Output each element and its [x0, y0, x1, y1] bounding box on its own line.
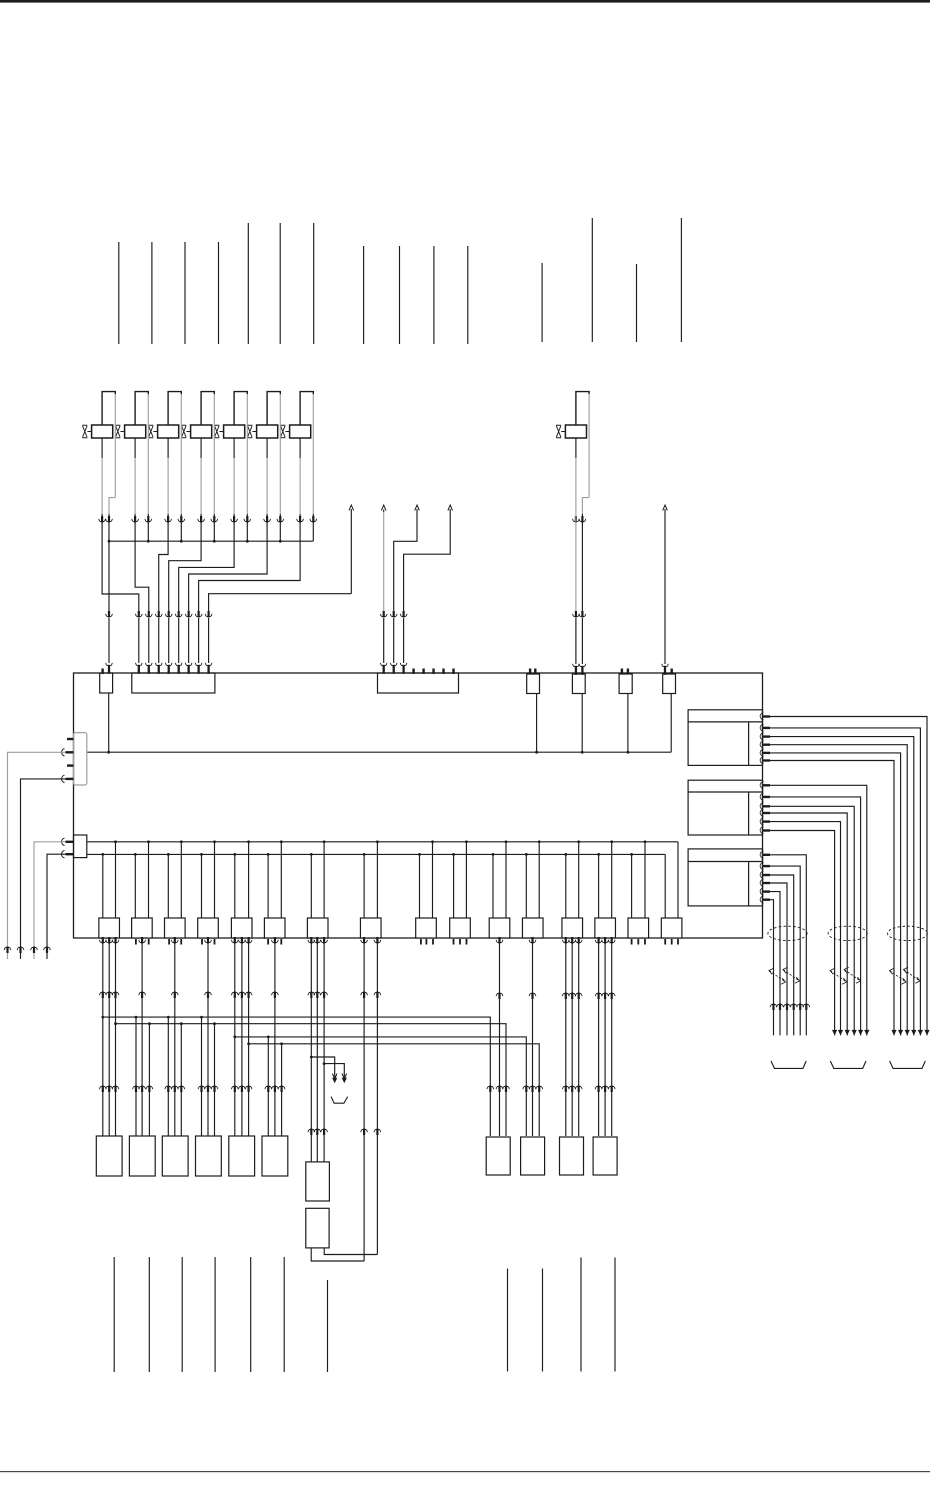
output connector K14 — [595, 918, 616, 938]
connector CN-H (ECU left, 4-pin) — [74, 733, 87, 785]
wire M2 pin 2 output — [760, 793, 863, 1035]
connector CN-C (ECU top, 8-pin) — [378, 673, 459, 693]
connector mark on link B — [503, 1086, 510, 1093]
pin stub CN-F pin 2 — [627, 669, 629, 675]
wire M3 pin 1 output — [760, 851, 810, 1035]
wire link C drop to fuse F6 — [265, 1036, 272, 1137]
wire K7-1 to relay R1 — [308, 937, 315, 1162]
wire K14-2 to fuse F10 — [602, 937, 609, 1136]
connector CN-E (ECU top, 2-pin) — [572, 674, 585, 694]
wire bus upper to output connector 13 — [577, 840, 580, 918]
fuse F1 — [96, 1136, 122, 1176]
output connector K16 — [661, 918, 682, 938]
wire CN-A to rail — [107, 693, 110, 754]
wire M3 pin 6 output — [760, 896, 777, 1035]
ECU internal supply rail — [87, 751, 671, 753]
output connector K13 — [562, 918, 583, 938]
wire bus upper to output connector 11 — [505, 840, 508, 918]
connector mark on link C — [523, 1086, 530, 1093]
relay R1 — [306, 1162, 330, 1201]
wire bus upper to output connector 16 — [677, 842, 679, 918]
junction — [246, 540, 249, 543]
connector mark on link D — [536, 1086, 543, 1093]
fuse F6 — [262, 1136, 288, 1176]
wire CN-E to rail — [581, 694, 584, 754]
shield mark — [904, 967, 921, 983]
wire link A drop to fuse F3 — [165, 1016, 172, 1136]
wire K5-3 to fuse F5 — [245, 937, 252, 1136]
wire link B drop to fuse F4 — [211, 1022, 218, 1136]
output connector K11 — [489, 918, 510, 938]
driver module M1 — [688, 710, 762, 766]
wire M3 pin 4 output — [760, 879, 790, 1035]
wire valve V8 return to CN-E pin 2 — [579, 394, 589, 675]
receptacle symbol for spare leads — [331, 1097, 348, 1104]
wire bus upper to output connector 8 — [376, 840, 379, 918]
wire top stub 9 — [399, 246, 401, 344]
wire top stub 7 — [313, 223, 315, 344]
pin stub K15-2 — [637, 939, 639, 945]
resistor R2 — [306, 1208, 329, 1248]
wire CN-G to rail — [670, 694, 672, 753]
wire CN-H pin2 to battery W1 — [4, 752, 65, 959]
wire K8-1 loop to R2 pin 1 — [311, 937, 367, 1261]
wire M3 pin 3 output — [760, 871, 797, 1035]
solenoid valve V6 — [247, 392, 280, 438]
wire bus upper to output connector 15 — [644, 840, 647, 918]
wire K3 middle to fuse F3 — [171, 937, 178, 1136]
wire K13-2 to fuse F9 — [569, 937, 576, 1136]
wire return bus to CN-A pin 2 — [106, 540, 113, 674]
wire harness W5 to CN-C pin 1 — [380, 505, 387, 674]
wire bottom stub 5 — [250, 1257, 252, 1372]
pin stub CN-C pin 7 — [442, 669, 444, 675]
wire bus lower to output connector 2 — [134, 853, 137, 918]
driver module M3 — [688, 849, 762, 906]
pin stub K9-3 — [432, 939, 434, 945]
pin stub K6 left — [267, 939, 269, 945]
shield mark — [783, 967, 800, 983]
solenoid valve V8 — [556, 392, 589, 438]
solenoid valve V7 — [280, 392, 313, 438]
wire top stub 5 — [247, 223, 249, 344]
wire M1 pin 4 output — [760, 741, 910, 1035]
junction — [279, 540, 282, 543]
wire link A drop to fuse F2 — [133, 1016, 140, 1136]
wire bus lower to output connector 3 — [167, 853, 170, 918]
wire K4 middle to fuse F4 — [205, 937, 212, 1136]
wire M1 pin 1 output — [760, 713, 930, 1036]
wire M1 pin 5 output — [760, 749, 903, 1035]
wire M2 pin 1 output — [760, 782, 869, 1036]
wire M2 pin 4 output — [760, 809, 850, 1035]
wire K14-3 to fuse F10 — [608, 937, 615, 1136]
wire bus upper to output connector 3 — [180, 840, 183, 918]
wire bottom stub 3 — [181, 1257, 183, 1372]
pin stub K15-3 — [644, 939, 646, 945]
fuse F3 — [162, 1136, 188, 1176]
wire M2 pin 3 output — [760, 803, 857, 1036]
wire top stub 13 — [591, 218, 593, 342]
wire CN-J pin1 to battery W3 — [31, 842, 66, 959]
wire M3 pin 5 output — [760, 888, 783, 1035]
wire bus lower to output connector 4 — [200, 853, 203, 918]
top border bar — [0, 0, 930, 3]
pin stub CN-G pin 2 — [671, 669, 673, 675]
pin stub K16-3 — [677, 939, 679, 945]
wire link D drop to fuse F6 — [278, 1042, 285, 1136]
wire bus lower to output connector 15 — [630, 853, 633, 918]
wire CN-H pin4 to battery W2 — [17, 779, 65, 959]
link wire C — [235, 1037, 527, 1136]
wire bus upper to output connector 2 — [147, 840, 150, 918]
output connector K12 — [522, 918, 543, 938]
pin stub K4 right — [214, 939, 216, 945]
pin stub K16-1 — [664, 939, 666, 945]
pin stub CN-F pin 1 — [621, 669, 623, 675]
wire K5-1 to fuse F5 — [231, 937, 238, 1136]
wire bus lower to output connector 10 — [452, 853, 455, 918]
pin stub K6 right — [280, 939, 282, 945]
fuse F10 — [593, 1137, 617, 1175]
driver module M2 — [688, 780, 762, 835]
wire M1 pin 3 output — [760, 733, 916, 1035]
wire top stub 12 — [541, 263, 543, 342]
pin CN-H pin 2 socket — [62, 749, 74, 756]
connector CN-G (ECU top, 2-pin) — [663, 674, 676, 694]
pin stub CN-A pin 1 — [101, 669, 103, 675]
wire K11 middle to fuse F7 — [496, 937, 503, 1136]
wire M1 pin 6 output — [760, 757, 896, 1036]
solenoid valve V1 — [82, 392, 115, 438]
fuse F7 — [486, 1137, 510, 1175]
fuse F2 — [129, 1136, 155, 1176]
wire valve V5 coil to CN-B pin 5 — [175, 438, 237, 674]
wire bus lower to output connector 12 — [525, 853, 528, 918]
wire top stub 2 — [151, 242, 153, 344]
pin CN-J pin 1 socket — [62, 838, 74, 845]
wire K7-3 to relay R1 — [321, 937, 328, 1162]
wire harness W6 to CN-C pin 2 — [390, 505, 419, 674]
pin CN-H pin 4 socket — [62, 775, 74, 782]
wire tap K7-1 spare lead — [310, 1056, 337, 1084]
solenoid valve V2 — [115, 392, 148, 438]
wire bus upper to output connector 14 — [610, 840, 613, 918]
connector CN-A (ECU top, 2-pin) — [100, 673, 113, 693]
ECU output bus lower — [87, 853, 665, 855]
pin stub K9-2 — [425, 939, 427, 945]
junction — [147, 540, 150, 543]
output connector K1 — [99, 918, 120, 938]
pin stub K4 left — [201, 939, 203, 945]
junction — [180, 540, 183, 543]
bottom rule — [0, 1471, 930, 1472]
output connector K8 — [360, 918, 381, 938]
link wire B — [116, 1024, 507, 1136]
wire bottom stub 1 — [113, 1257, 115, 1372]
wire bus lower to output connector 8 — [363, 853, 366, 918]
wire harness W4 to CN-B pin 8 — [205, 505, 353, 674]
connector CN-B (ECU top, 8-pin) — [132, 673, 215, 693]
wire valve V7 return to bus — [310, 394, 317, 541]
destination bracket — [890, 1061, 926, 1068]
wire valve V2 return to bus — [145, 394, 152, 541]
wire bus upper to output connector 1 — [114, 840, 117, 918]
wire bus upper to output connector 6 — [280, 840, 283, 918]
pin stub K3 right — [180, 939, 182, 945]
pin stub K2 right — [148, 939, 150, 945]
solenoid valve V5 — [214, 392, 247, 438]
wire bus upper to output connector 12 — [538, 840, 541, 918]
fuse F9 — [560, 1137, 584, 1175]
harness group oval — [888, 926, 928, 940]
wire valve V1 coil to CN-B pin 1 — [99, 438, 143, 674]
wire top stub 10 — [433, 246, 435, 344]
fuse F5 — [229, 1136, 255, 1176]
wire bus upper to output connector 9 — [431, 840, 434, 918]
pin stub K10-2 — [459, 939, 461, 945]
wire K2 middle to fuse F2 — [139, 937, 146, 1136]
shield mark — [830, 968, 847, 984]
shield mark — [890, 968, 907, 984]
wire K8-2 loop to R2 pin 2 — [324, 937, 381, 1255]
wire bus lower to output connector 5 — [233, 853, 236, 918]
connector CN-F (ECU top, 2-pin) — [619, 674, 632, 694]
wire bus lower to output connector 16 — [664, 854, 666, 918]
wire top stub 11 — [467, 246, 469, 344]
wire bottom stub 9 — [542, 1269, 544, 1372]
output connector K2 — [132, 918, 153, 938]
link wire D — [249, 1044, 540, 1136]
wire K1-1 to fuse F1 — [99, 937, 106, 1136]
wire bottom stub 7 — [327, 1280, 329, 1372]
wire K1-3 to fuse F1 — [112, 937, 119, 1136]
pin stub K10-1 — [453, 939, 455, 945]
output connector K9 — [416, 918, 437, 938]
wire CN-J pin2 to battery W4 — [44, 854, 66, 959]
pin stub K15-1 — [631, 939, 633, 945]
wire valve V1 return to bus — [106, 394, 116, 541]
junction — [101, 1016, 104, 1019]
destination bracket — [771, 1061, 806, 1068]
junction — [114, 1022, 117, 1025]
wire K14-1 to fuse F10 — [595, 937, 602, 1136]
wire valve V4 return to bus — [211, 394, 218, 541]
wire harness W7 to CN-C pin 3 — [400, 505, 452, 674]
output connector K4 — [198, 918, 219, 938]
wire valve V3 return to bus — [178, 394, 185, 541]
wire bottom stub 10 — [580, 1258, 582, 1372]
wire K5-2 to fuse F5 — [239, 937, 246, 1136]
pin stub K16-2 — [671, 939, 673, 945]
wire CN-F to rail — [627, 694, 630, 754]
wire bus upper to output connector 5 — [247, 840, 250, 918]
junction — [213, 540, 216, 543]
wire M1 pin 2 output — [760, 724, 923, 1035]
ECU controller box U1 — [74, 673, 763, 938]
harness group oval — [768, 926, 807, 940]
pin stub CN-H pin 3 — [67, 764, 74, 766]
wire valve V5 return to bus — [244, 394, 251, 541]
wire top stub 4 — [218, 242, 220, 344]
wire M3 pin 2 output — [760, 863, 804, 1036]
pin stub K2 left — [135, 939, 137, 945]
shield mark — [769, 968, 786, 984]
wire M2 pin 6 output — [760, 827, 837, 1036]
connector CN-J (ECU left, 2-pin) — [74, 835, 87, 858]
wire top stub 1 — [118, 242, 120, 344]
wire top stub 8 — [363, 246, 365, 344]
pin stub CN-H pin 1 — [67, 738, 74, 740]
wire top stub 6 — [279, 223, 281, 344]
wire tap K7-3 spare lead — [323, 1062, 347, 1083]
wire valve V4 coil to CN-B pin 4 — [165, 438, 204, 674]
wire CN-D to rail — [535, 694, 538, 754]
wire K13-3 to fuse F9 — [575, 937, 582, 1136]
wire bus upper to output connector 7 — [323, 840, 326, 918]
output connector K6 — [264, 918, 285, 938]
wire valve V3 coil to CN-B pin 3 — [155, 438, 171, 674]
pin stub CN-D pin 2 — [534, 669, 536, 675]
wire valve V8 coil to CN-E pin 1 — [573, 438, 580, 675]
junction — [233, 1036, 236, 1039]
pin stub CN-C pin 8 — [452, 669, 454, 675]
junction — [247, 1042, 250, 1045]
wire top stub 3 — [184, 242, 186, 344]
wire link B drop to fuse F3 — [178, 1022, 185, 1136]
output connector K10 — [450, 918, 471, 938]
wire bottom stub 11 — [614, 1258, 616, 1372]
fuse F8 — [521, 1137, 545, 1175]
pin stub CN-C pin 4 — [412, 669, 414, 675]
wire valve V6 return to bus — [277, 394, 284, 541]
wire bus lower to output connector 7 — [310, 853, 313, 918]
pin stub CN-C pin 6 — [432, 669, 434, 675]
wire bus lower to output connector 1 — [101, 853, 104, 918]
wire bus lower to output connector 9 — [418, 853, 421, 918]
harness group oval — [828, 926, 867, 940]
wire bottom stub 4 — [214, 1257, 216, 1372]
wire bus upper to output connector 4 — [213, 840, 216, 918]
link wire A — [103, 1017, 491, 1136]
pin stub CN-C pin 5 — [422, 669, 424, 675]
pin stub CN-D pin 1 — [529, 669, 531, 675]
wire valve V6 coil to CN-B pin 6 — [185, 438, 270, 674]
valve return bus wire — [109, 540, 313, 542]
wire bottom stub 2 — [148, 1257, 150, 1372]
solenoid valve V3 — [148, 392, 181, 438]
wire harness W8 to CN-G pin 1 — [662, 505, 669, 675]
wire K1-2 to fuse F1 — [106, 937, 113, 1136]
wire link B drop to fuse F2 — [146, 1022, 153, 1136]
wire link A drop to fuse F4 — [198, 1016, 205, 1136]
pin CN-J pin 2 socket — [62, 851, 74, 858]
fuse F4 — [196, 1136, 222, 1176]
wire bottom stub 8 — [507, 1269, 509, 1372]
connector mark on link A — [487, 1086, 494, 1093]
solenoid valve V4 — [181, 392, 214, 438]
wire bus lower to output connector 11 — [492, 853, 495, 918]
destination bracket — [830, 1061, 866, 1068]
pin stub K10-3 — [466, 939, 468, 945]
pin stub K3 left — [168, 939, 170, 945]
connector CN-D (ECU top, 2-pin) — [527, 674, 540, 694]
output connector K5 — [231, 918, 252, 938]
wire bus lower to output connector 13 — [564, 853, 567, 918]
shield mark — [844, 967, 861, 983]
wire valve V7 coil to CN-B pin 7 — [195, 438, 303, 674]
wire bus lower to output connector 6 — [267, 853, 270, 918]
wire valve V2 coil to CN-B pin 2 — [132, 438, 152, 674]
ECU output bus upper — [87, 841, 678, 843]
wire K6 middle to fuse F6 — [272, 937, 279, 1136]
output connector K7 — [307, 918, 328, 938]
output connector K3 — [165, 918, 186, 938]
wire bus lower to output connector 14 — [597, 853, 600, 918]
output connector K15 — [628, 918, 649, 938]
wire bottom stub 6 — [283, 1257, 285, 1372]
wire M2 pin 5 output — [760, 818, 843, 1035]
wire top stub 15 — [680, 218, 682, 342]
wire bus upper to output connector 10 — [465, 840, 468, 918]
wire K13-1 to fuse F9 — [562, 937, 569, 1136]
wire top stub 14 — [636, 264, 638, 342]
wire K12 middle to fuse F8 — [529, 937, 536, 1136]
pin stub K9-1 — [420, 939, 422, 945]
wire K7-2 to relay R1 — [314, 937, 321, 1162]
